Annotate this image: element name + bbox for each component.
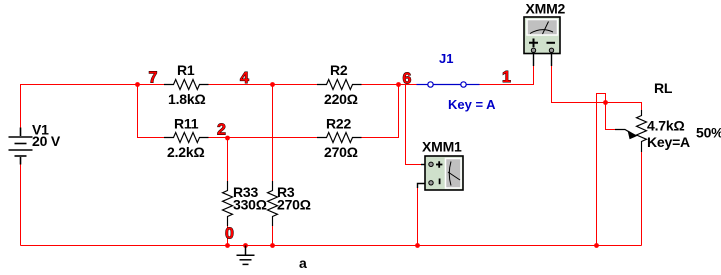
wire node 4 down to R3 (272, 85, 274, 182)
svg-text:R2: R2 (330, 62, 348, 78)
wire node 6 down to XMM1 plus (406, 85, 422, 165)
svg-text:330Ω: 330Ω (233, 197, 267, 213)
svg-text:R1: R1 (177, 62, 195, 78)
wire bottom rail up jog to junction on XMM2 wire (597, 94, 606, 246)
wire bottom rail (21, 245, 642, 247)
wire top rail left: V1 top to R1 (21, 85, 165, 129)
svg-text:1: 1 (502, 69, 511, 86)
ground (237, 246, 255, 265)
resistor R2 (317, 80, 362, 90)
svg-text:XMM1: XMM1 (422, 139, 462, 155)
wire node 2 down to R33 (227, 138, 229, 182)
wire node 7 down to row 2 (138, 85, 165, 138)
resistor R11 (164, 133, 209, 143)
wire top rail R2 right to J1 left (through node 6) (362, 84, 417, 86)
svg-text:J1: J1 (439, 51, 453, 66)
junction ground (243, 243, 248, 248)
switch J1 (417, 82, 480, 87)
wire XMM2 minus down and right to RL top (552, 66, 642, 110)
wire row2 R22 right up to node 6 (362, 85, 399, 138)
svg-text:20 V: 20 V (32, 133, 61, 149)
multimeter XMM1 (418, 156, 464, 190)
svg-text:2: 2 (217, 122, 226, 139)
junction jog wire on rail (594, 243, 599, 248)
svg-text:a: a (299, 255, 307, 271)
svg-text:Key=A: Key=A (647, 134, 690, 150)
wire R33 bottom to rail (227, 226, 229, 246)
wire J1 right to XMM2 plus (node 1) (480, 66, 534, 85)
svg-text:Key = A: Key = A (448, 97, 496, 112)
svg-text:7: 7 (149, 70, 158, 87)
svg-text:270Ω: 270Ω (277, 197, 311, 213)
wire junction down to RL wiper (606, 103, 616, 130)
resistor R22 (317, 133, 362, 143)
svg-text:XMM2: XMM2 (526, 1, 566, 17)
wire V1 bottom to bottom rail (20, 164, 22, 246)
svg-text:50%: 50% (696, 125, 721, 141)
junction XMM1 minus on rail (415, 243, 420, 248)
resistor R33 (223, 181, 233, 226)
junction node 4 (270, 82, 275, 87)
junction R3 bottom (270, 243, 275, 248)
junction node 7 (135, 82, 140, 87)
svg-text:0: 0 (225, 226, 234, 243)
multimeter XMM2 (524, 17, 560, 66)
svg-text:4: 4 (240, 70, 249, 87)
resistor R1 (164, 80, 209, 90)
svg-text:RL: RL (654, 80, 673, 96)
wire row2 R11 right to R22 left (through node 2) (209, 137, 318, 139)
junction node 6 (396, 82, 401, 87)
wire RL bottom to rail corner (641, 152, 643, 246)
junction node 2 (225, 136, 230, 141)
svg-text:2.2kΩ: 2.2kΩ (167, 144, 204, 160)
wire R3 bottom to rail (272, 226, 274, 246)
resistor R3 (268, 181, 278, 226)
svg-text:6: 6 (403, 71, 412, 88)
potentiometer RL (615, 110, 647, 152)
junction wiper tap (603, 100, 608, 105)
svg-text:R11: R11 (174, 116, 199, 132)
wire XMM1 minus down to bottom rail (417, 187, 419, 246)
svg-text:R22: R22 (326, 116, 351, 132)
svg-text:270Ω: 270Ω (324, 144, 358, 160)
junction R33 bottom (225, 243, 230, 248)
svg-text:1.8kΩ: 1.8kΩ (168, 91, 205, 107)
svg-text:220Ω: 220Ω (324, 91, 358, 107)
svg-text:4.7kΩ: 4.7kΩ (647, 118, 684, 134)
battery V1 (9, 128, 33, 165)
wire top rail R1 right to R2 left (through node 4) (209, 84, 318, 86)
